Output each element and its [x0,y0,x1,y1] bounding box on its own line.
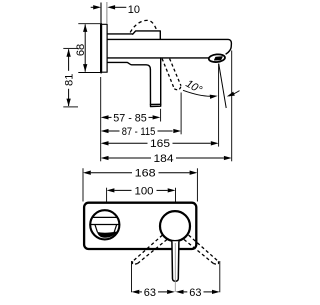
ext line lever tip [160,109,162,122]
spout front trapezoid sides [95,225,97,232]
dim 100 ext lines [106,188,108,202]
wall plate thick left edge [100,24,102,72]
dim 68 ext lines [78,23,100,25]
angle leader right [229,91,240,96]
dim 63/63 ext lines [131,261,133,292]
body lower edge [108,62,151,69]
dim 87-115 [101,129,109,133]
dim 10 arrows [91,6,94,8]
dim 184 [101,156,109,160]
dim 10 ext line left [100,3,102,24]
left main ext line [100,77,102,161]
dashed swung lever left [133,235,163,261]
dashed lever open line 1 [162,59,174,89]
svg-text:165: 165 [150,138,170,150]
dim 63 left [132,290,140,294]
lever (closed, side) [150,58,160,107]
svg-text:100: 100 [135,185,154,197]
spout bar outline [108,39,232,54]
angle leader left [183,90,215,96]
ext line dashed lever tip [180,93,182,135]
ext line spout tip [231,51,233,162]
dim 10 ext line right [106,2,108,24]
slanted 10 deg stream line [219,64,227,108]
spout front outer circle [90,210,119,239]
dim 168 ext lines [82,168,84,201]
dashed handle open arc [130,20,156,32]
dashed lever open line 2 [170,59,181,86]
aerator (side) [208,54,225,63]
dim 68 line and arrows [84,24,86,71]
aerator slot [214,57,222,60]
vertical stream reference line [218,64,220,147]
handle cap [133,31,161,39]
spout front chord upper [92,216,117,218]
wall plate (side) [101,24,107,72]
escutcheon plate (front) [84,203,196,249]
dim 57-85 [101,115,109,119]
dashed swung lever right [189,235,219,261]
dim 100 [107,188,115,192]
svg-text:184: 184 [154,153,174,165]
dim 165 [101,141,109,145]
svg-text:168: 168 [135,168,156,180]
svg-text:68: 68 [75,44,87,56]
svg-text:63: 63 [144,287,156,299]
center line [174,243,176,292]
body top strip [108,33,133,35]
handle circle [160,211,190,241]
svg-text:63: 63 [189,287,201,299]
lever front (down) [172,241,179,281]
aerator dark crescent [97,232,117,238]
dim 81 ext lines [63,47,78,49]
spout front chord lower [90,224,119,226]
svg-text:10: 10 [128,4,140,16]
dim 81 line segments and arrows [68,49,70,71]
lever end cap line [151,103,161,105]
svg-text:81: 81 [64,74,76,86]
dim 168 [83,171,91,175]
svg-text:57 - 85: 57 - 85 [113,112,147,124]
svg-text:87 - 115: 87 - 115 [122,126,156,138]
dashed lever open tip [174,86,181,90]
dim 63 right [176,290,184,294]
spout underside [108,57,209,59]
